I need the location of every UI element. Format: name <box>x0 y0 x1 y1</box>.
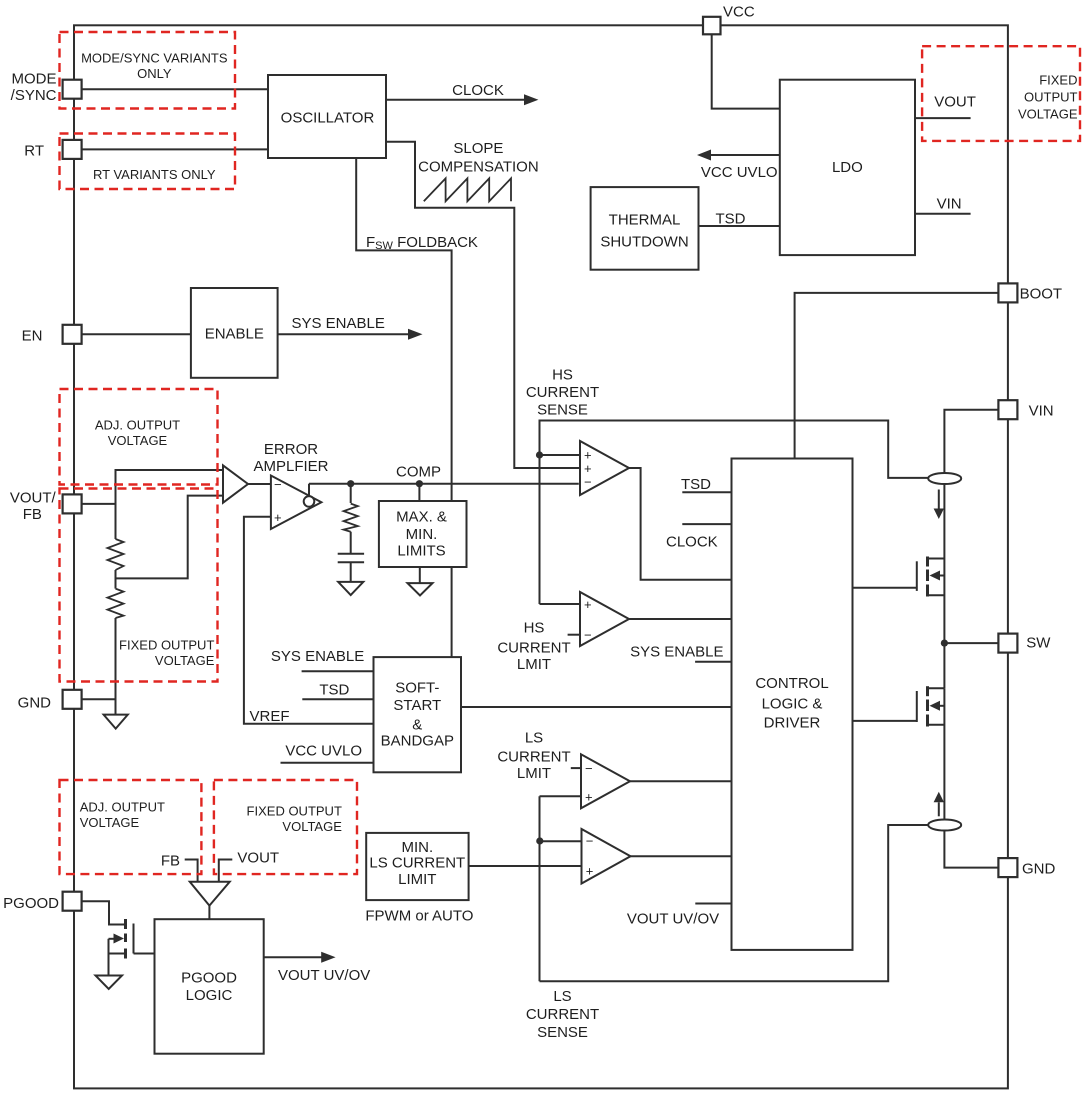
svg-text:PGOOD: PGOOD <box>3 895 59 912</box>
svg-text:LS CURRENT: LS CURRENT <box>369 855 465 872</box>
svg-text:−: − <box>274 477 282 492</box>
svg-text:SYS ENABLE: SYS ENABLE <box>271 648 364 665</box>
svg-text:FB: FB <box>23 506 42 523</box>
svg-text:COMP: COMP <box>396 464 441 481</box>
svg-text:+: + <box>585 789 593 804</box>
svg-text:TSD: TSD <box>681 476 711 493</box>
svg-text:DRIVER: DRIVER <box>764 715 821 732</box>
svg-text:VOLTAGE: VOLTAGE <box>1018 107 1078 122</box>
svg-text:SHUTDOWN: SHUTDOWN <box>600 234 688 251</box>
svg-text:SOFT-: SOFT- <box>395 680 439 697</box>
svg-text:VOUT: VOUT <box>934 94 976 111</box>
svg-text:THERMAL: THERMAL <box>609 212 681 229</box>
svg-text:SENSE: SENSE <box>537 402 588 419</box>
svg-text:START: START <box>393 697 441 714</box>
svg-text:SLOPE: SLOPE <box>453 140 503 157</box>
svg-text:&: & <box>412 717 422 734</box>
svg-text:CURRENT: CURRENT <box>526 1006 599 1023</box>
svg-text:VREF: VREF <box>250 708 290 725</box>
svg-text:TSD: TSD <box>319 682 349 699</box>
svg-text:CURRENT: CURRENT <box>497 749 570 766</box>
svg-text:LDO: LDO <box>832 159 863 176</box>
svg-text:LIMIT: LIMIT <box>398 871 436 888</box>
svg-text:VOUT: VOUT <box>237 850 279 867</box>
svg-text:VOLTAGE: VOLTAGE <box>155 653 215 668</box>
svg-text:AMPLFIER: AMPLFIER <box>253 458 328 475</box>
svg-text:VIN: VIN <box>937 196 962 213</box>
svg-text:LMIT: LMIT <box>517 765 551 782</box>
svg-text:MAX. &: MAX. & <box>396 509 447 526</box>
svg-text:MODE/SYNC VARIANTS: MODE/SYNC VARIANTS <box>81 51 228 66</box>
svg-text:LIMITS: LIMITS <box>397 543 445 560</box>
svg-text:MODE: MODE <box>12 71 57 88</box>
svg-text:ADJ. OUTPUT: ADJ. OUTPUT <box>95 418 180 433</box>
svg-text:FB: FB <box>161 853 180 870</box>
svg-text:GND: GND <box>18 695 52 712</box>
svg-text:LMIT: LMIT <box>517 656 551 673</box>
svg-text:FIXED OUTPUT: FIXED OUTPUT <box>119 638 214 653</box>
svg-text:TSD: TSD <box>716 211 746 228</box>
svg-text:OUTPUT: OUTPUT <box>1024 90 1078 105</box>
svg-text:+: + <box>274 510 282 525</box>
svg-text:VOUT UV/OV: VOUT UV/OV <box>278 967 370 984</box>
svg-text:LOGIC &: LOGIC & <box>762 696 823 713</box>
svg-text:LS: LS <box>553 988 571 1005</box>
svg-text:−: − <box>584 628 592 643</box>
svg-text:LS: LS <box>525 730 543 747</box>
svg-text:CURRENT: CURRENT <box>526 384 599 401</box>
svg-text:BOOT: BOOT <box>1020 286 1063 303</box>
svg-text:SYS ENABLE: SYS ENABLE <box>292 315 385 332</box>
svg-text:OSCILLATOR: OSCILLATOR <box>281 110 375 127</box>
svg-text:SYS ENABLE: SYS ENABLE <box>630 644 723 661</box>
svg-text:VOLTAGE: VOLTAGE <box>282 819 342 834</box>
svg-text:COMPENSATION: COMPENSATION <box>418 159 539 176</box>
svg-text:VOUT/: VOUT/ <box>10 489 57 506</box>
svg-text:HS: HS <box>552 367 573 384</box>
svg-text:VCC UVLO: VCC UVLO <box>285 743 362 760</box>
svg-text:ERROR: ERROR <box>264 441 318 458</box>
svg-text:CONTROL: CONTROL <box>755 675 828 692</box>
svg-text:RT VARIANTS ONLY: RT VARIANTS ONLY <box>93 167 216 182</box>
svg-text:/SYNC: /SYNC <box>11 87 57 104</box>
svg-text:EN: EN <box>22 328 43 345</box>
svg-text:+: + <box>584 597 592 612</box>
svg-text:FIXED: FIXED <box>1039 73 1077 88</box>
svg-text:CLOCK: CLOCK <box>452 82 504 99</box>
svg-text:FIXED OUTPUT: FIXED OUTPUT <box>247 804 342 819</box>
svg-text:VOLTAGE: VOLTAGE <box>80 815 140 830</box>
svg-text:SW: SW <box>1026 635 1051 652</box>
svg-text:VOLTAGE: VOLTAGE <box>108 433 168 448</box>
svg-text:PGOOD: PGOOD <box>181 970 237 987</box>
svg-text:−: − <box>586 834 594 849</box>
svg-text:ADJ. OUTPUT: ADJ. OUTPUT <box>80 800 165 815</box>
svg-text:LOGIC: LOGIC <box>186 987 233 1004</box>
svg-text:VOUT UV/OV: VOUT UV/OV <box>627 911 719 928</box>
svg-text:MIN.: MIN. <box>401 839 433 856</box>
svg-text:SENSE: SENSE <box>537 1024 588 1041</box>
svg-text:VCC UVLO: VCC UVLO <box>701 164 778 181</box>
svg-text:FPWM or AUTO: FPWM or AUTO <box>365 908 473 925</box>
svg-text:−: − <box>584 475 592 490</box>
svg-text:+: + <box>586 864 594 879</box>
svg-text:BANDGAP: BANDGAP <box>381 733 454 750</box>
svg-text:CLOCK: CLOCK <box>666 534 718 551</box>
svg-text:−: − <box>585 761 593 776</box>
svg-text:VIN: VIN <box>1029 403 1054 420</box>
svg-text:ENABLE: ENABLE <box>205 326 264 343</box>
svg-text:HS: HS <box>524 620 545 637</box>
svg-text:FSW FOLDBACK: FSW FOLDBACK <box>366 234 478 252</box>
svg-text:GND: GND <box>1022 861 1056 878</box>
svg-text:RT: RT <box>24 143 44 160</box>
svg-text:MIN.: MIN. <box>406 526 438 543</box>
svg-text:ONLY: ONLY <box>137 66 172 81</box>
svg-text:VCC: VCC <box>723 4 755 21</box>
svg-text:CURRENT: CURRENT <box>497 640 570 657</box>
